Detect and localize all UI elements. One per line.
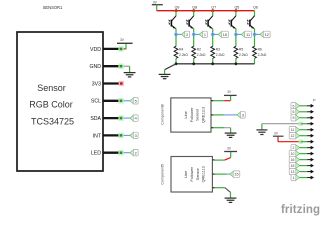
svg-text:R4: R4 [179, 47, 183, 51]
wire Component5 VCC riser (green) [230, 152, 232, 158]
wire Component5 GND riser (green) [230, 192, 232, 197]
wire emitter Q8 (green) [193, 28, 195, 33]
svg-text:TCS34725: TCS34725 [31, 117, 74, 127]
wire header pin 3 (green) [300, 117, 308, 119]
transistor Q9 label [175, 5, 180, 9]
resistor R3 [211, 46, 225, 58]
svg-text:13: 13 [291, 170, 295, 174]
svg-text:15: 15 [234, 173, 238, 177]
wire VDD riser (green) [125, 43, 127, 49]
wire base tap Q8 (blue) [194, 33, 199, 35]
svg-text:Q9: Q9 [175, 5, 180, 9]
transistor Q8 label [192, 5, 197, 9]
wire emitter bus (dark) [176, 63, 255, 65]
pin arrow header pin 12 [307, 170, 314, 174]
net label header pin 12 (13) [289, 168, 299, 174]
junction dot rail Q8 [192, 9, 195, 12]
svg-text:12: 12 [265, 33, 269, 37]
wire Component8 VCC (green) [213, 100, 224, 102]
wire header pin 2 (green) [300, 111, 308, 113]
pad SDA [118, 115, 123, 120]
svg-text:Follower: Follower [190, 107, 194, 122]
net label LED pin 2 [130, 150, 138, 156]
pad header pin 7 [299, 139, 308, 143]
node Q6 emitter junction (blue) [252, 32, 256, 36]
resistor R5 [234, 46, 248, 58]
pin arrow header pin 7 [307, 140, 314, 144]
wire VDD to 3V (red) [122, 48, 126, 50]
pad INT [118, 133, 123, 138]
sensor Component8 QRE1113 body [171, 98, 211, 132]
svg-text:2.2kΩ: 2.2kΩ [239, 53, 248, 57]
wire collector Q8 (green) [193, 11, 195, 16]
wire emitter Q7 (green) [212, 28, 214, 33]
svg-text:SDA: SDA [90, 116, 101, 122]
svg-text:5: 5 [292, 104, 294, 108]
node Q5 emitter junction (blue) [234, 32, 238, 36]
svg-text:QRE1113: QRE1113 [202, 166, 206, 182]
wire R6 to bus (green) [254, 58, 256, 63]
net label header pin 2 (6) [291, 109, 300, 115]
svg-text:2.2kΩ: 2.2kΩ [216, 53, 225, 57]
svg-text:2.2kΩ: 2.2kΩ [179, 53, 188, 57]
pad VDD [118, 46, 123, 51]
svg-text:4: 4 [135, 117, 137, 121]
wire 3V drop (green) [156, 5, 158, 11]
pin stub Component8 [211, 114, 213, 116]
wire SDA (blue) [122, 117, 130, 119]
phototransistor Q8 symbol [186, 16, 193, 29]
wire header pin 1 (green) [300, 105, 308, 107]
pin stub Component5 [212, 187, 214, 189]
ground symbol at GND [124, 73, 136, 77]
svg-text:Q8: Q8 [192, 5, 197, 9]
svg-text:INT: INT [93, 133, 102, 139]
svg-text:Sensor: Sensor [37, 83, 66, 93]
net label Q5 pin 11 [241, 31, 251, 37]
ground symbol (header) [256, 124, 267, 135]
net label Component5 OUT [230, 171, 240, 177]
wire ground drop (green) [164, 70, 166, 74]
svg-text:1: 1 [204, 33, 206, 37]
svg-text:2: 2 [292, 146, 294, 150]
svg-text:2.2kΩ: 2.2kΩ [258, 53, 267, 57]
svg-text:VDD: VDD [90, 47, 101, 53]
pad LED [118, 150, 123, 155]
pin label 3V3 [92, 81, 101, 87]
wire Q7 to R3 (green) [212, 36, 214, 47]
wire GND (grey) [122, 65, 130, 67]
junction dot bus Q5 [235, 62, 238, 65]
svg-text:Q6: Q6 [253, 5, 258, 9]
phototransistor Q6 symbol [247, 16, 254, 29]
net label SCL pin 5 [130, 98, 138, 104]
pin stub VDD [103, 48, 119, 50]
pad SCL [118, 98, 123, 103]
wire emitter Q9 (green) [175, 28, 177, 33]
wire INT (blue) [122, 134, 130, 136]
node Q9 emitter junction (blue) [174, 32, 178, 36]
pin label GND [89, 64, 101, 70]
net label header pin 10 (16) [289, 156, 299, 162]
pin arrow header pin 3 [307, 116, 314, 120]
wire collector Q9 (green) [175, 11, 177, 16]
net label INT pin 3 [130, 132, 138, 138]
svg-text:LED: LED [91, 151, 101, 157]
svg-text:Component5: Component5 [160, 164, 164, 185]
svg-text:1: 1 [292, 176, 294, 180]
fritzing watermark [281, 204, 320, 216]
resistor R6 [253, 46, 267, 58]
pin arrow header pin 8 [307, 146, 314, 150]
connector P label [313, 99, 316, 103]
net label header pin 9 (10) [289, 150, 299, 156]
svg-text:12: 12 [291, 134, 295, 138]
phototransistor Q7 symbol [205, 16, 212, 29]
wire R2 to bus (green) [193, 58, 195, 63]
svg-text:SENSOR1: SENSOR1 [43, 5, 63, 10]
svg-text:11: 11 [291, 128, 295, 132]
label SENSOR1 [43, 5, 63, 10]
svg-text:3V3: 3V3 [92, 81, 101, 87]
svg-text:16: 16 [223, 33, 227, 37]
svg-text:Sensor: Sensor [196, 108, 200, 121]
wire Component5 OUT (blue) [227, 173, 230, 175]
wire SCL (blue) [122, 100, 130, 102]
wire Q6 to R6 (green) [254, 36, 256, 47]
pin label SDA [90, 116, 101, 122]
power symbol 3V Component5 [224, 146, 237, 151]
junction dot bus Q9 [175, 62, 178, 65]
transistor Q5 label [235, 5, 240, 9]
net label header pin 1 (5) [291, 103, 300, 109]
pad GND [118, 64, 123, 69]
net label Q9 pin 2 [181, 31, 189, 37]
pin stub SCL [103, 100, 119, 102]
wire emitter Q5 (green) [235, 28, 237, 33]
wire header 3V drop (red) [277, 136, 279, 142]
svg-text:Q5: Q5 [235, 5, 240, 9]
pin stub 3V3 [103, 82, 119, 84]
svg-text:R2: R2 [197, 47, 201, 51]
pin arrow header pin 4 [307, 122, 314, 126]
net label SDA pin 4 [130, 115, 138, 121]
wire header GND (grey) [262, 123, 301, 125]
net label Q7 pin 16 [218, 31, 228, 37]
svg-text:10: 10 [291, 152, 295, 156]
svg-text:QRE1113: QRE1113 [201, 107, 205, 123]
ground symbol (array) [159, 74, 171, 78]
wire header pin 6 (green) [300, 135, 308, 137]
resistor R2 [192, 46, 206, 58]
phototransistor Q9 symbol [169, 16, 176, 29]
sensor U1 TCS34725 body [17, 32, 103, 171]
wire base tap Q9 (blue) [176, 33, 181, 35]
pin stub Component5 [212, 173, 214, 175]
wire GND riser (green) [129, 66, 131, 72]
wire base tap Q7 (blue) [213, 33, 218, 35]
pin label SCL [91, 99, 101, 105]
svg-text:Component8: Component8 [160, 104, 164, 125]
pin stub GND [103, 65, 119, 67]
pad header pin 4 [299, 122, 308, 126]
svg-text:9: 9 [292, 116, 294, 120]
power symbol 3V at VDD [117, 38, 133, 43]
svg-text:5: 5 [135, 99, 137, 103]
wire Component5 GND (dark diagonal) [225, 188, 231, 193]
svg-text:Line: Line [184, 111, 188, 118]
svg-text:fritzing: fritzing [281, 204, 320, 216]
net label Component8 OUT [237, 112, 245, 118]
pin arrow header pin 5 [307, 128, 314, 132]
net label Q8 pin 1 [199, 31, 207, 37]
wire header 3V (red) [278, 141, 301, 143]
pin arrow header pin 11 [307, 164, 314, 168]
wire base tap Q5 (blue) [236, 33, 241, 35]
svg-text:SCL: SCL [91, 99, 101, 105]
pin arrow header pin 6 [307, 134, 314, 138]
junction dot bus Q8 [192, 62, 195, 65]
wire bus to ground (diagonal) [165, 64, 176, 70]
net label header pin 8 (2) [291, 144, 300, 150]
power symbol 3V (header) [273, 132, 284, 137]
wire header pin 8 (green) [300, 147, 308, 149]
net label header pin 5 (11) [289, 127, 299, 133]
pin label LED [91, 151, 101, 157]
pad 3V3 unconnected (red) [119, 81, 124, 86]
svg-text:Sensor: Sensor [196, 168, 200, 181]
net label header pin 13 (1) [291, 174, 300, 180]
label Component5 [160, 164, 164, 185]
svg-text:16: 16 [291, 158, 295, 162]
junction dot rail Q9 [175, 9, 178, 12]
wire Component5 VCC (green) [214, 159, 224, 161]
resistor R4 [174, 46, 188, 58]
pin arrow header pin 9 [307, 152, 314, 156]
svg-text:2: 2 [186, 33, 188, 37]
pin label VDD [90, 47, 101, 53]
wire header pin 9 (green) [300, 153, 308, 155]
wire Component8 VCC (red) [225, 100, 231, 102]
pin stub LED [103, 152, 119, 154]
transistor Q7 label [211, 5, 216, 9]
svg-text:Q7: Q7 [211, 5, 216, 9]
junction dot rail Q7 [211, 9, 214, 12]
wire 3V rail (red) [157, 10, 255, 12]
pin stub Component8 [211, 100, 213, 102]
wire Q8 to R2 (green) [193, 36, 195, 47]
pin arrow header pin 2 [307, 110, 314, 114]
wire header pin 13 (green) [300, 177, 308, 179]
svg-text:2.2kΩ: 2.2kΩ [197, 53, 206, 57]
svg-text:11: 11 [246, 33, 250, 37]
pin stub Component5 [212, 159, 214, 161]
svg-text:Line: Line [184, 171, 188, 178]
svg-text:3: 3 [242, 113, 244, 117]
wire Component8 VCC riser (green) [230, 95, 232, 100]
power symbol 3V (array) [152, 0, 163, 4]
svg-text:R6: R6 [258, 47, 262, 51]
svg-text:GND: GND [89, 64, 101, 70]
pin stub SDA [103, 117, 119, 119]
power symbol 3V Component8 [224, 90, 237, 95]
svg-text:RGB Color: RGB Color [29, 100, 73, 110]
svg-text:3: 3 [135, 134, 137, 138]
wire collector Q7 (green) [212, 11, 214, 16]
pin stub Component8 [211, 127, 213, 129]
wire Q5 to R5 (green) [235, 36, 237, 47]
ground symbol Component5 [225, 198, 237, 202]
junction dot bus Q7 [211, 62, 214, 65]
wire Component8 GND (grey) [224, 127, 230, 129]
pin arrow header pin 1 [307, 104, 314, 108]
wire collector Q6 (green) [254, 11, 256, 16]
wire Component5 GND (green) [214, 187, 225, 189]
wire emitter Q6 (green) [254, 28, 256, 33]
wire header pin 12 (green) [300, 171, 308, 173]
transistor Q6 label [253, 5, 258, 9]
phototransistor Q5 symbol [229, 16, 236, 29]
wire Component8 OUT (green) [213, 114, 223, 116]
ground symbol Component8 [225, 133, 237, 137]
pin arrow header pin 10 [307, 158, 314, 162]
wire Q9 to R4 (green) [175, 36, 177, 47]
wire R3 to bus (green) [212, 58, 214, 63]
wire header pin 5 (green) [300, 129, 308, 131]
wire header pin 10 (green) [300, 159, 308, 161]
svg-text:Follower: Follower [190, 166, 194, 181]
svg-text:2: 2 [135, 151, 137, 155]
node Q8 emitter junction (blue) [192, 32, 196, 36]
wire header pin 11 (green) [300, 165, 308, 167]
net label header pin 3 (9) [291, 115, 300, 121]
wire collector Q5 (green) [235, 11, 237, 16]
net label header pin 6 (12) [289, 133, 299, 139]
junction dot rail Q5 [234, 9, 237, 12]
net label header pin 11 (15) [289, 162, 299, 168]
node Q7 emitter junction (blue) [211, 32, 215, 36]
wire LED (blue) [122, 152, 130, 154]
pin label INT [93, 133, 102, 139]
wire Component5 VCC (red diagonal) [225, 158, 231, 161]
svg-text:R5: R5 [239, 47, 243, 51]
label Component8 [160, 104, 164, 125]
net label Q6 pin 12 [260, 31, 270, 37]
wire Component8 GND riser (green) [230, 128, 232, 133]
wire Component5 OUT (green) [214, 173, 226, 175]
svg-text:15: 15 [291, 164, 295, 168]
pin arrow header pin 13 [307, 176, 314, 180]
svg-text:6: 6 [292, 110, 294, 114]
wire R5 to bus (green) [235, 58, 237, 63]
sensor Component5 QRE1113 body [171, 157, 212, 193]
wire Component8 OUT (blue) [224, 114, 238, 116]
wire R4 to bus (green) [175, 58, 177, 63]
wire base tap Q6 (blue) [255, 33, 260, 35]
pin stub INT [103, 134, 119, 136]
wire Component8 GND (green) [213, 127, 224, 129]
svg-text:R3: R3 [216, 47, 220, 51]
